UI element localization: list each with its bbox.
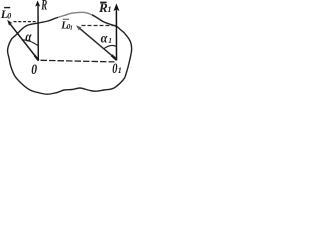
vector L01 line	[79, 27, 117, 59]
label R1 overbar	[100, 1, 106, 3]
svg-text:α: α	[25, 29, 32, 45]
vector L01 end thick stroke at origin O1	[112, 55, 117, 60]
axis R arrowhead	[35, 1, 40, 7]
vector L0 end thick stroke at origin O	[35, 55, 39, 60]
axis R1 arrowhead	[114, 3, 120, 11]
label L0 overbar	[4, 7, 10, 9]
svg-text:1: 1	[70, 26, 73, 32]
vector L0 arrowhead	[7, 20, 12, 26]
label L01 overbar	[63, 18, 69, 20]
svg-text:1: 1	[108, 5, 112, 14]
vector L0 line	[10, 23, 39, 60]
svg-text:R: R	[41, 0, 48, 14]
dashed baseline O to O1	[41, 60, 115, 62]
axis R1 shaft	[115, 10, 117, 61]
svg-text:0: 0	[31, 62, 37, 78]
svg-text:0: 0	[7, 12, 11, 21]
angle arc alpha1	[104, 45, 116, 48]
axis R shaft	[37, 6, 39, 61]
dashed horizontal from L0 tip to axis R	[14, 21, 37, 23]
svg-text:1: 1	[118, 66, 122, 75]
angle arc alpha	[22, 40, 38, 46]
vector L01 arrowhead	[76, 25, 82, 31]
svg-text:1: 1	[108, 36, 112, 45]
svg-text:α: α	[101, 31, 108, 46]
faded portion of blob top arc	[58, 12, 92, 17]
earth blob outline	[8, 12, 132, 94]
svg-text:R: R	[98, 0, 108, 15]
dash-dot horizontal from L01 tip to axis R1	[82, 25, 116, 27]
